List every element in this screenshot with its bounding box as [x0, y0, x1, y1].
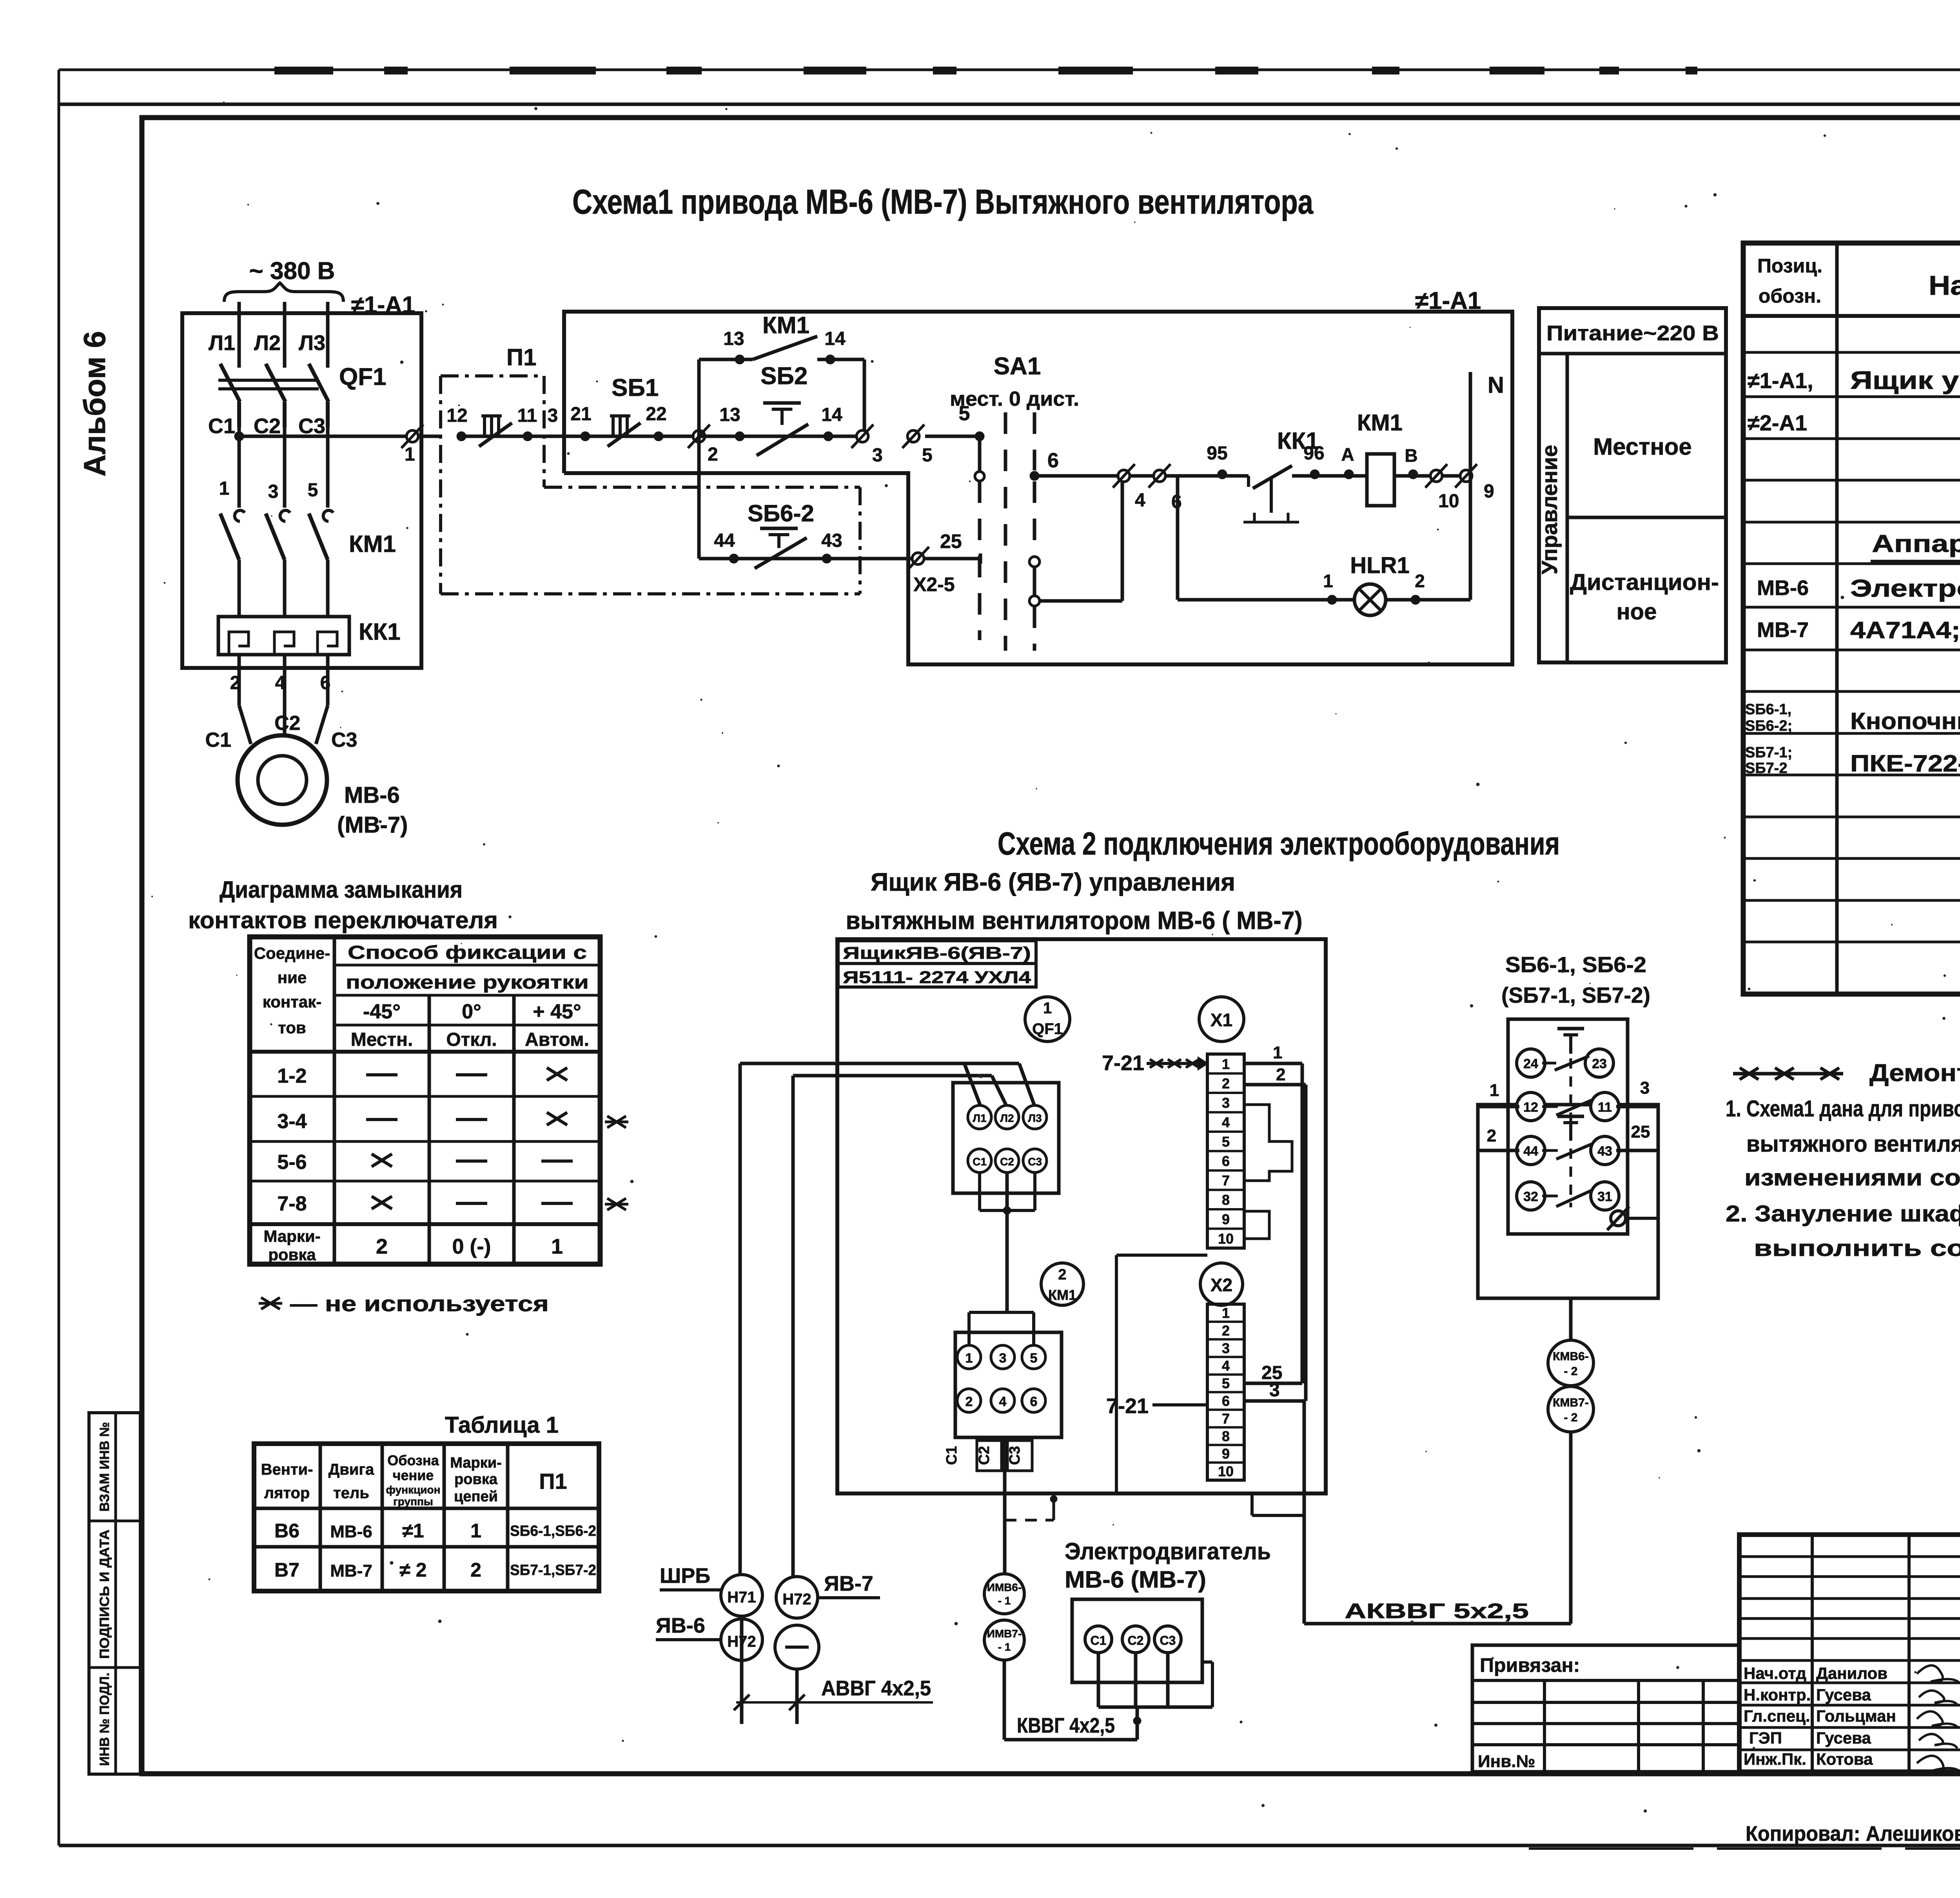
svg-text:Двига: Двига — [328, 1461, 374, 1478]
svg-text:3: 3 — [1222, 1340, 1230, 1356]
connector mark 4 — [1118, 470, 1130, 482]
svg-text:Л3: Л3 — [1028, 1112, 1042, 1124]
svg-text:- 1: - 1 — [998, 1641, 1011, 1653]
KM1 output cable labels — [944, 1441, 1032, 1471]
svg-text:7-21: 7-21 — [1102, 1051, 1144, 1075]
contactor coil KM1 — [1315, 410, 1470, 506]
svg-text:Схема1 привода МВ-6 (МВ-7) Вы: Схема1 привода МВ-6 (МВ-7) Вытяжного вен… — [572, 182, 1314, 221]
specification table — [1743, 243, 1960, 994]
table section: local apparatus — [1871, 530, 1960, 561]
svg-text:- 2: - 2 — [1564, 1365, 1577, 1378]
svg-text:группы: группы — [393, 1495, 433, 1508]
svg-text:Данилов: Данилов — [1816, 1664, 1887, 1682]
svg-text:МВ-7: МВ-7 — [1757, 618, 1809, 642]
wire X1-2 — [1244, 1065, 1306, 1085]
svg-text:7: 7 — [1222, 1172, 1230, 1189]
svg-text:≠1-А1,: ≠1-А1, — [1748, 368, 1813, 393]
neutral wire N — [1470, 372, 1504, 600]
svg-text:изменениями согласно таблице: изменениями согласно таблице 1 — [1744, 1165, 1960, 1190]
svg-text:Питание~220 В: Питание~220 В — [1546, 321, 1719, 345]
svg-text:1: 1 — [551, 1235, 563, 1258]
svg-text:МВ-7: МВ-7 — [330, 1561, 372, 1580]
thermal relay KK1 heaters — [218, 617, 401, 693]
cabinet type label box — [838, 941, 1036, 987]
label YaV-7 — [819, 1572, 880, 1598]
svg-text:МВ-6: МВ-6 — [1757, 576, 1809, 600]
start button SB2 — [699, 363, 864, 455]
svg-text:ЯВ-6: ЯВ-6 — [656, 1614, 705, 1637]
svg-text:ИНВ № ПОДЛ.: ИНВ № ПОДЛ. — [97, 1673, 112, 1766]
power supply box Pitanie ~220V — [1537, 308, 1726, 662]
svg-text:31: 31 — [1597, 1189, 1612, 1204]
svg-text:43: 43 — [1597, 1144, 1612, 1159]
svg-text:КМ1: КМ1 — [1048, 1287, 1076, 1303]
svg-text:2: 2 — [1415, 571, 1425, 591]
local-mode jumper loop — [1034, 476, 1178, 601]
diagram row 3-4 — [277, 1110, 628, 1133]
button mechanical link (dashed) — [1570, 1058, 1572, 1207]
svg-text:6: 6 — [1047, 449, 1059, 472]
svg-text:ГЭП: ГЭП — [1749, 1729, 1782, 1747]
svg-text:Автом.: Автом. — [525, 1029, 589, 1050]
cable AVVG 4x2.5 dimension — [734, 1616, 933, 1724]
svg-text:1: 1 — [219, 478, 230, 499]
svg-text:SБ7-2: SБ7-2 — [1745, 760, 1788, 777]
svg-text:контак-: контак- — [263, 993, 321, 1011]
stop button SB1 — [570, 374, 699, 446]
diagram row 5-6 — [277, 1151, 573, 1174]
button contact 12-11 — [1478, 1078, 1658, 1121]
svg-text:9: 9 — [1222, 1446, 1230, 1462]
svg-text:Н71: Н71 — [727, 1589, 756, 1606]
cabinet boundary box P1 (dash-dot) — [441, 344, 544, 594]
svg-text:АКВВГ 5х2,5: АКВВГ 5х2,5 — [1345, 1599, 1529, 1623]
svg-text:вытяжного вентилятора МВ7 схе: вытяжного вентилятора МВ7 схема аналогич… — [1746, 1131, 1960, 1157]
svg-text:В7: В7 — [274, 1559, 299, 1581]
svg-text:Электродвигатель: Электродвигатель — [1850, 575, 1960, 602]
svg-text:С3: С3 — [331, 729, 357, 751]
svg-text:SБ6-1,: SБ6-1, — [1745, 701, 1791, 718]
dash-dot enclosure for SB6-2 — [441, 487, 860, 594]
QF1 terminal box — [953, 1083, 1059, 1193]
svg-text:≠1-А1: ≠1-А1 — [1415, 287, 1481, 314]
position circle KM1 — [1041, 1263, 1083, 1305]
svg-text:1: 1 — [965, 1351, 973, 1366]
wires KK1 to motor — [239, 655, 328, 744]
pushbutton station inner box — [1508, 1019, 1628, 1234]
circuit breaker QF1 — [218, 363, 387, 427]
svg-text:5: 5 — [308, 480, 318, 501]
svg-text:1: 1 — [470, 1520, 481, 1542]
svg-text:мест. 0 дист.: мест. 0 дист. — [950, 388, 1079, 410]
svg-text:44: 44 — [1523, 1144, 1538, 1159]
svg-text:С2: С2 — [976, 1446, 993, 1465]
svg-text:8: 8 — [1222, 1192, 1230, 1208]
svg-text:3: 3 — [999, 1351, 1007, 1366]
svg-text:12: 12 — [446, 405, 467, 426]
svg-text:SБ7-1,SБ7-2: SБ7-1,SБ7-2 — [510, 1562, 596, 1579]
svg-text:14: 14 — [824, 328, 846, 349]
svg-text:выполнить согласно ПУЭ-85, §: выполнить согласно ПУЭ-85, §I-7-46-85 — [1754, 1236, 1960, 1261]
connector mark 3 — [857, 430, 868, 442]
svg-text:чение: чение — [393, 1467, 434, 1483]
svg-text:3: 3 — [872, 445, 883, 466]
svg-text:Соедине-: Соедине- — [254, 944, 330, 962]
svg-text:3: 3 — [1640, 1078, 1650, 1098]
svg-text:4: 4 — [1222, 1114, 1230, 1130]
phase segments to KM1 contacts — [239, 427, 328, 508]
svg-text:21: 21 — [570, 404, 591, 425]
demontage cable 7-21 to X1 — [1102, 1051, 1207, 1075]
svg-text:Альбом 6: Альбом 6 — [77, 331, 112, 476]
svg-text:≠2-А1: ≠2-А1 — [1748, 410, 1807, 435]
table row: PKE type — [1745, 744, 1960, 777]
phase line L2 — [283, 302, 287, 368]
svg-text:П1: П1 — [506, 344, 537, 370]
svg-text:тель: тель — [333, 1484, 369, 1502]
svg-text:12: 12 — [1523, 1100, 1538, 1115]
button contact 24-23 — [1517, 1029, 1613, 1077]
svg-text:КМВ6-: КМВ6- — [1553, 1350, 1589, 1363]
svg-text:(SБ7-1, SБ7-2): (SБ7-1, SБ7-2) — [1501, 983, 1650, 1007]
terminal strip X1 — [1207, 1054, 1244, 1248]
svg-text:ровка: ровка — [454, 1471, 498, 1488]
connector mark 5 — [907, 430, 919, 442]
position circle X2 — [1200, 1263, 1243, 1305]
svg-text:96: 96 — [1303, 443, 1324, 464]
svg-text:тов: тов — [278, 1018, 306, 1037]
thermal contact KK1 — [1243, 428, 1325, 522]
svg-text:44: 44 — [714, 530, 735, 551]
svg-text:8: 8 — [1222, 1428, 1230, 1444]
svg-text:С1: С1 — [208, 414, 235, 438]
svg-text:-45°: -45° — [363, 1000, 401, 1023]
svg-text:функцион: функцион — [386, 1484, 440, 1496]
svg-text:32: 32 — [1523, 1189, 1538, 1204]
svg-text:Инж.Пк.: Инж.Пк. — [1744, 1750, 1806, 1768]
svg-text:Аппаратура по месту: Аппаратура по месту — [1872, 530, 1960, 557]
svg-text:АВВГ 4х2,5: АВВГ 4х2,5 — [821, 1677, 931, 1700]
svg-text:положение рукоятки: положение рукоятки — [346, 972, 589, 993]
svg-text:КК1: КК1 — [359, 619, 401, 645]
svg-text:ПОДПИСЬ И ДАТА: ПОДПИСЬ И ДАТА — [97, 1530, 112, 1659]
svg-text:2: 2 — [708, 444, 718, 465]
svg-text:95: 95 — [1207, 443, 1227, 464]
svg-text:QF1: QF1 — [1032, 1020, 1063, 1038]
svg-text:1: 1 — [405, 444, 415, 465]
svg-text:SБ1: SБ1 — [612, 374, 659, 401]
svg-text:SБ6-2;: SБ6-2; — [1745, 718, 1792, 734]
svg-text:22: 22 — [646, 404, 666, 425]
pushbutton station outer box — [1478, 1105, 1658, 1298]
svg-text:В6: В6 — [274, 1520, 299, 1542]
QF1 output bridge — [980, 1172, 1035, 1312]
cable marker IMV6-1 — [984, 1574, 1024, 1614]
button SB6-1 contact — [446, 405, 546, 446]
title block attachment box — [1472, 1645, 1739, 1772]
station cable down — [1569, 1298, 1573, 1340]
svg-text:2. Зануление шкафов и элект: 2. Зануление шкафов и электроаппаратов — [1726, 1201, 1960, 1227]
cable marker IMV7-1 — [984, 1620, 1024, 1660]
svg-text:2: 2 — [470, 1559, 481, 1581]
svg-text:5: 5 — [1222, 1375, 1230, 1392]
svg-text:ЯщикЯВ-6(ЯВ-7): ЯщикЯВ-6(ЯВ-7) — [843, 944, 1031, 963]
svg-text:С3: С3 — [298, 414, 325, 438]
svg-text:Местн.: Местн. — [351, 1029, 413, 1050]
connector mark 6 — [1154, 470, 1165, 482]
wire X2-6 — [1244, 1380, 1306, 1401]
svg-text:Способ фиксации с: Способ фиксации с — [348, 942, 587, 963]
wire to KK1 contact — [1178, 443, 1249, 479]
svg-text:6: 6 — [1222, 1393, 1230, 1409]
svg-text:9: 9 — [1484, 481, 1494, 502]
svg-text:Я5111- 2274 УХЛ4: Я5111- 2274 УХЛ4 — [843, 968, 1031, 987]
svg-text:3: 3 — [1222, 1095, 1230, 1111]
svg-text:Гольцман: Гольцман — [1816, 1707, 1896, 1725]
svg-text:П1: П1 — [539, 1469, 567, 1493]
cable marker N72 right — [776, 1577, 818, 1618]
KM1 holding contact branch — [699, 312, 864, 436]
position circle QF1 — [1025, 997, 1070, 1042]
svg-text:5-6: 5-6 — [277, 1151, 307, 1174]
pushbutton station title — [1501, 952, 1650, 1007]
cable KVVG 4x2.5 — [1004, 1660, 1137, 1740]
svg-text:С1: С1 — [1091, 1633, 1107, 1648]
svg-text:Л1: Л1 — [973, 1112, 986, 1124]
KM1 terminal box — [955, 1332, 1062, 1437]
svg-text:SБ2: SБ2 — [760, 363, 808, 390]
svg-text:Л3: Л3 — [299, 331, 325, 355]
lamp branch wire — [1178, 476, 1470, 604]
svg-text:С2: С2 — [254, 414, 281, 438]
contact diagram table — [250, 937, 600, 1264]
control box #1-A1 outline — [182, 313, 421, 668]
label YaV-6 — [656, 1614, 721, 1640]
svg-text:9: 9 — [1222, 1211, 1230, 1227]
svg-text:2: 2 — [965, 1394, 973, 1409]
svg-text:1: 1 — [1490, 1081, 1499, 1100]
svg-text:SА1: SА1 — [994, 353, 1041, 380]
svg-text:1-2: 1-2 — [277, 1065, 307, 1087]
svg-text:вытяжным вентилятором МВ-6 (: вытяжным вентилятором МВ-6 ( МВ-7) — [846, 906, 1303, 934]
svg-text:КМВ7-: КМВ7- — [1553, 1396, 1589, 1409]
svg-text:4: 4 — [1222, 1358, 1230, 1374]
table row: motor MV-6 — [1757, 573, 1960, 602]
table row: pushbutton station — [1745, 701, 1960, 734]
svg-text:Л2: Л2 — [1000, 1112, 1014, 1124]
control wire from C1 — [234, 432, 442, 441]
svg-text:11: 11 — [517, 405, 537, 426]
svg-text:обозн.: обозн. — [1759, 285, 1821, 307]
svg-text:≠1: ≠1 — [402, 1520, 424, 1542]
svg-text:КМ1: КМ1 — [349, 531, 396, 557]
svg-text:10: 10 — [1438, 491, 1459, 512]
wire 7-21 to X2 — [1106, 1394, 1207, 1418]
svg-text:ЯВ-7: ЯВ-7 — [824, 1572, 873, 1595]
svg-text:ИМВ7-: ИМВ7- — [987, 1628, 1022, 1640]
wire X2-5 — [1244, 1363, 1302, 1383]
svg-text:ИМВ6-: ИМВ6- — [987, 1581, 1022, 1593]
contactor KM1 main contacts — [219, 478, 396, 617]
svg-text:контактов переключателя: контактов переключателя — [188, 907, 498, 933]
svg-text:— не используется: — не используется — [290, 1291, 549, 1316]
svg-text:2: 2 — [1276, 1065, 1285, 1084]
svg-text:13: 13 — [719, 405, 740, 425]
svg-text:Нач.отд: Нач.отд — [1744, 1664, 1806, 1682]
note: not used — [259, 1291, 549, 1316]
svg-text:Привязан:: Привязан: — [1480, 1654, 1580, 1676]
svg-text:3: 3 — [548, 405, 558, 426]
svg-text:QF1: QF1 — [339, 363, 387, 390]
cable marker N71 — [721, 1575, 762, 1616]
label ShRB — [660, 1564, 721, 1590]
svg-text:1. Схема1 дана для привода в: 1. Схема1 дана для привода вытяжного вен… — [1726, 1096, 1960, 1121]
cable marker minus — [775, 1625, 819, 1669]
svg-text:~ 380 В: ~ 380 В — [249, 258, 335, 285]
svg-text:Кнопочный пост управления: Кнопочный пост управления — [1850, 708, 1960, 734]
svg-text:Марки-: Марки- — [263, 1227, 320, 1245]
svg-text:23: 23 — [1592, 1056, 1607, 1071]
svg-text:1: 1 — [1323, 571, 1333, 591]
diagram row 1-2 — [277, 1065, 567, 1087]
signal lamp HLR1 — [1350, 553, 1409, 615]
connector mark 9 — [1460, 470, 1472, 482]
selector switch SA1 — [950, 353, 1079, 651]
cable AKVVG 5x2.5 — [1304, 1599, 1571, 1624]
bottom copy line — [1529, 1847, 1960, 1850]
cable risers to H71 H72 — [740, 1063, 793, 1577]
svg-text:Х2-5: Х2-5 — [913, 573, 955, 595]
svg-text:Ящик управления: Ящик управления — [1850, 366, 1960, 394]
wire to switch SA1 — [925, 402, 984, 441]
svg-text:КМ1: КМ1 — [762, 312, 809, 338]
svg-text:1: 1 — [1273, 1043, 1282, 1062]
table row: motor MV-7 — [1757, 617, 1960, 643]
svg-text:Наименование: Наименование — [1929, 270, 1960, 301]
svg-text:Таблица 1: Таблица 1 — [445, 1412, 559, 1438]
svg-text:HLR1: HLR1 — [1350, 553, 1409, 578]
svg-text:С1: С1 — [973, 1156, 987, 1168]
motor terminal wires — [1098, 1653, 1212, 1725]
svg-text:С3: С3 — [1007, 1446, 1023, 1465]
svg-text:С1: С1 — [944, 1446, 960, 1465]
svg-text:5: 5 — [922, 445, 933, 466]
motor terminal box — [1072, 1599, 1202, 1682]
svg-text:24: 24 — [1523, 1056, 1538, 1071]
svg-text:2: 2 — [1487, 1126, 1496, 1145]
svg-text:Н.контр.: Н.контр. — [1744, 1686, 1811, 1704]
table 1 row V7 — [274, 1559, 596, 1581]
terminal strip X2 — [1207, 1304, 1244, 1480]
svg-text:0°: 0° — [462, 1000, 481, 1023]
svg-text:МВ-6: МВ-6 — [330, 1522, 372, 1541]
title block main box — [1739, 1535, 1960, 1772]
svg-text:43: 43 — [821, 530, 842, 551]
svg-text:1: 1 — [1222, 1056, 1230, 1072]
svg-text:С2: С2 — [274, 712, 300, 735]
svg-text:2: 2 — [1058, 1267, 1066, 1283]
svg-text:В: В — [1405, 445, 1417, 466]
svg-text:цепей: цепей — [454, 1488, 498, 1505]
svg-text:Гл.спец.: Гл.спец. — [1744, 1707, 1810, 1725]
motor feed wire C2 down — [1005, 1437, 1057, 1574]
svg-text:10: 10 — [1218, 1463, 1234, 1479]
svg-text:ПКЕ-722-2У2. ТУ 16.642.006-83: ПКЕ-722-2У2. ТУ 16.642.006-83 — [1850, 750, 1960, 777]
svg-text:ровка: ровка — [268, 1245, 316, 1264]
svg-text:Л1: Л1 — [209, 331, 235, 355]
svg-text:Котова: Котова — [1816, 1750, 1873, 1768]
position circle X1 — [1199, 997, 1244, 1042]
svg-text:SБ6-1, SБ6-2: SБ6-1, SБ6-2 — [1505, 952, 1646, 977]
cable marker KMV7-2 — [1548, 1386, 1593, 1432]
svg-text:3: 3 — [268, 481, 279, 502]
table row: box YaV-6 — [1748, 366, 1960, 394]
connector mark X2-5 — [907, 530, 962, 595]
svg-text:7-21: 7-21 — [1106, 1394, 1149, 1418]
svg-text:+ 45°: + 45° — [533, 1000, 581, 1023]
svg-text:Копировал: Алешикова: Копировал: Алешикова — [1746, 1822, 1960, 1845]
svg-text:(МВ-7): (МВ-7) — [337, 812, 408, 838]
cabinet box YaV-6 — [837, 939, 1326, 1493]
motor title — [1065, 1538, 1271, 1593]
svg-text:ное: ное — [1617, 599, 1657, 624]
riser wires X1 to X2 — [1302, 1063, 1306, 1401]
svg-text:≠ 2: ≠ 2 — [399, 1559, 426, 1581]
svg-text:С1: С1 — [205, 729, 231, 751]
svg-text:С3: С3 — [1160, 1633, 1176, 1648]
svg-text:- 2: - 2 — [1564, 1411, 1577, 1424]
svg-text:С3: С3 — [1028, 1156, 1042, 1168]
svg-text:Н72: Н72 — [782, 1591, 811, 1608]
svg-text:2: 2 — [376, 1235, 388, 1258]
wire mark 3 — [546, 405, 585, 436]
svg-text:Ящик ЯВ-6 (ЯВ-7) управления: Ящик ЯВ-6 (ЯВ-7) управления — [871, 868, 1235, 896]
control circuit outline box #1-A1 (right) — [564, 287, 1512, 664]
top margin band line — [59, 103, 1960, 106]
svg-text:4: 4 — [999, 1394, 1007, 1409]
svg-text:10: 10 — [1218, 1231, 1234, 1247]
phase line L1 — [238, 302, 241, 368]
svg-text:С2: С2 — [1128, 1633, 1144, 1648]
table 1 — [254, 1444, 599, 1591]
table 1 row V6 — [274, 1520, 596, 1542]
svg-text:Л2: Л2 — [254, 331, 281, 355]
KM1 input bridge — [969, 1312, 1034, 1345]
cable marker KMV6-2 — [1548, 1340, 1593, 1386]
svg-text:25: 25 — [1631, 1122, 1650, 1141]
svg-text:11: 11 — [1598, 1100, 1612, 1115]
svg-text:3: 3 — [1269, 1380, 1280, 1401]
svg-text:Местное: Местное — [1593, 434, 1692, 460]
svg-text:Венти-: Венти- — [261, 1461, 313, 1478]
svg-text:ние: ние — [278, 968, 307, 987]
cable marker N72 — [721, 1619, 762, 1660]
svg-text:КВВГ 4х2,5: КВВГ 4х2,5 — [1017, 1714, 1115, 1737]
svg-text:лятор: лятор — [264, 1484, 310, 1502]
svg-text:7: 7 — [1222, 1410, 1230, 1426]
svg-text:SБ6-2: SБ6-2 — [748, 500, 814, 526]
svg-text:2: 2 — [1222, 1323, 1230, 1339]
connector mark 2 — [693, 430, 705, 442]
svg-text:КМ1: КМ1 — [1357, 410, 1403, 435]
svg-text:7-8: 7-8 — [277, 1192, 307, 1215]
remote button SB6-2 branch — [699, 436, 980, 568]
button contact 32-31 — [1517, 1182, 1619, 1210]
svg-text:25: 25 — [940, 530, 962, 552]
svg-text:Марки-: Марки- — [450, 1455, 502, 1471]
svg-text:Схема 2 подключения электроо: Схема 2 подключения электрооборудования — [998, 826, 1560, 862]
wire X1-1 — [1244, 1043, 1302, 1063]
